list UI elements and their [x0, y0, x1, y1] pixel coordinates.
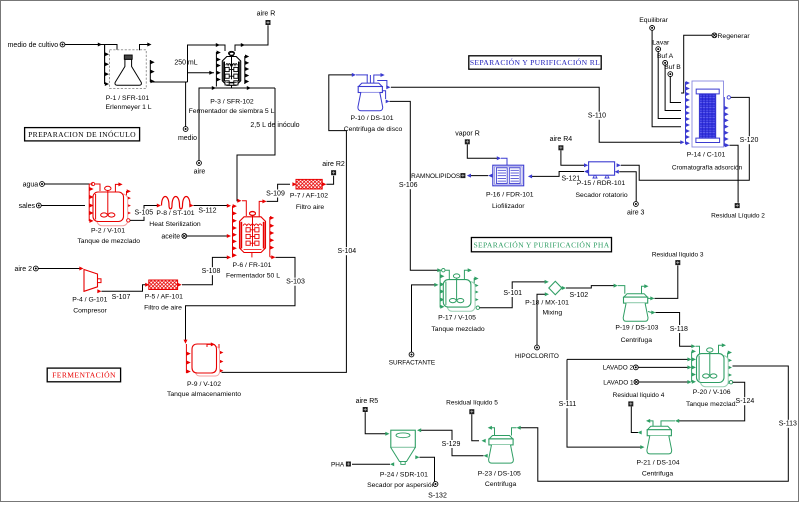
wire PHA product — [390, 462, 394, 466]
label S-124 — [736, 397, 754, 405]
label S-109 — [267, 190, 285, 198]
svg-text:P-15 / RDR-101: P-15 / RDR-101 — [577, 180, 626, 187]
svg-text:S-108: S-108 — [202, 268, 221, 275]
P-6 right bracket — [269, 217, 271, 257]
wire vapor R to P-16 — [467, 144, 497, 158]
wire P-17 vent stub — [464, 270, 468, 279]
source connector medio de cultivo — [60, 42, 65, 47]
destination connector Residual liquido 3 — [675, 260, 680, 265]
svg-text:S-118: S-118 — [670, 326, 688, 333]
destination connector Residual liquido 5 — [469, 409, 474, 414]
svg-text:S-107: S-107 — [112, 294, 131, 301]
svg-text:P-8 / ST-101: P-8 / ST-101 — [156, 210, 194, 217]
svg-text:agua: agua — [23, 182, 39, 189]
wire LAVADO 2 to P-20 — [638, 366, 688, 368]
destination connector aire R — [266, 20, 271, 25]
P-2 outlet port — [127, 219, 130, 222]
svg-text:P-21 / DS-104: P-21 / DS-104 — [636, 459, 679, 466]
svg-text:Compresor: Compresor — [73, 307, 107, 314]
label S-102 — [570, 291, 588, 299]
wire 2,5 L de inoculo to P-6 — [237, 88, 275, 201]
source connector LAVADO 1 — [634, 380, 639, 385]
label S-118 — [670, 325, 688, 333]
svg-text:S-132: S-132 — [428, 492, 447, 499]
section label SEPARACION Y PURIFICACION PHA — [471, 238, 611, 252]
disc centrifuge P-19 — [624, 294, 648, 297]
svg-text:S-110: S-110 — [588, 113, 606, 120]
rotary dryer P-15 — [589, 162, 615, 175]
wire S-108 — [182, 257, 228, 284]
source connector sales — [36, 203, 41, 208]
label S-113 — [779, 420, 797, 428]
disc centrifuge P-10 — [356, 74, 368, 76]
svg-text:S-113: S-113 — [779, 421, 797, 428]
svg-text:Tanque almacenamiento: Tanque almacenamiento — [167, 391, 241, 398]
svg-text:aceite: aceite — [161, 234, 180, 241]
compressor P-4 — [84, 270, 98, 292]
svg-text:SEPARACIÓN Y PURIFICACIÓN RL: SEPARACIÓN Y PURIFICACIÓN RL — [470, 57, 600, 67]
wire SURFACTANTE to P-17 — [412, 285, 436, 352]
destination connector Residual liquido 4 — [628, 401, 633, 406]
svg-text:S-104: S-104 — [337, 248, 356, 255]
P-9 right bracket — [218, 344, 220, 372]
svg-text:SEPARACIÓN Y PURIFICACIÓN PHA: SEPARACIÓN Y PURIFICACIÓN PHA — [473, 239, 609, 249]
wire P-15 exhaust to column — [617, 163, 621, 167]
source connector aire — [197, 161, 202, 166]
wire P-6 bottom outlet — [251, 253, 253, 258]
svg-text:Centrifuga: Centrifuga — [621, 337, 653, 344]
disc centrifuge P-21 — [648, 426, 672, 429]
section label SEPARACION Y PURIFICACION RL — [469, 56, 601, 69]
chromatography column P-14 — [692, 81, 724, 147]
source connector aceite — [182, 234, 187, 239]
svg-text:S-121: S-121 — [561, 175, 580, 182]
mixing tank P-17 — [442, 269, 445, 272]
wire aire 3 to P-15 — [615, 170, 619, 174]
wire P-7 to aire R2 — [326, 176, 333, 184]
source connector Buf B — [668, 72, 673, 77]
wire agua to P-2 — [44, 183, 91, 185]
svg-text:S-129: S-129 — [442, 441, 461, 448]
svg-text:Fermentador 50 L: Fermentador 50 L — [226, 273, 280, 280]
wire 250 mL inoculum riser — [188, 45, 226, 82]
mixer P-18 — [549, 281, 562, 294]
label S-103 — [287, 278, 305, 286]
wire P-20 vent stub — [719, 345, 723, 353]
wire S-102 — [566, 286, 614, 288]
source connector S-132 — [433, 482, 438, 487]
wire sales to P-2 — [41, 205, 85, 207]
P-20 left bracket — [691, 351, 693, 382]
wire S-106 — [390, 101, 439, 270]
wire Buf A to column — [665, 65, 681, 110]
destination connector vapor R — [465, 139, 470, 144]
svg-text:P-6 / FR-101: P-6 / FR-101 — [233, 262, 272, 269]
mixing tank P-20 — [701, 356, 729, 387]
wire Regenerar to column — [681, 35, 712, 93]
svg-text:2,5 L de inóculo: 2,5 L de inóculo — [250, 122, 299, 129]
svg-text:Tanque mezclado: Tanque mezclado — [431, 326, 484, 333]
label S-106 — [399, 181, 417, 189]
P-2 right bracket — [126, 191, 128, 221]
P-1 right outlet bracket — [149, 60, 151, 82]
wire P-9 vent stub — [207, 344, 212, 347]
svg-text:Filtro aire: Filtro aire — [296, 204, 325, 211]
wire S-109 from P-6 top — [259, 201, 263, 216]
svg-text:Erlenmeyer 1 L: Erlenmeyer 1 L — [105, 104, 151, 111]
svg-text:S-103: S-103 — [286, 279, 305, 286]
P-17 outlet port — [476, 306, 479, 309]
P-20 outlet port — [729, 381, 732, 384]
svg-text:Fermentador de siembra 5 L: Fermentador de siembra 5 L — [189, 108, 275, 115]
source connector medio — [183, 127, 188, 132]
wire aire R4 to P-15 — [561, 150, 584, 165]
svg-text:Residual líquido 4: Residual líquido 4 — [613, 392, 665, 399]
wire Residual liquido 4 from P-21 — [631, 407, 638, 433]
svg-text:P-9 / V-102: P-9 / V-102 — [187, 381, 221, 388]
svg-text:medio de cultivo: medio de cultivo — [8, 42, 59, 49]
svg-text:P-23 / DS-105: P-23 / DS-105 — [478, 471, 521, 478]
svg-text:P-3 / SFR-102: P-3 / SFR-102 — [210, 98, 254, 105]
source connector aire 2 — [33, 266, 38, 271]
source connector Buf A — [663, 61, 668, 66]
svg-text:Residual Líquido 2: Residual Líquido 2 — [711, 212, 765, 219]
svg-text:Liofilizador: Liofilizador — [492, 203, 525, 210]
destination connector RAMNOLIPIDOS — [460, 173, 465, 178]
svg-text:S-124: S-124 — [736, 398, 755, 405]
wire medio de cultivo to P-1 — [65, 45, 117, 51]
svg-text:SURFACTANTE: SURFACTANTE — [389, 359, 435, 366]
column P-14 left bracket — [685, 82, 687, 144]
P-6 left bracket — [232, 206, 234, 258]
wire P-2 vent stub — [115, 184, 119, 192]
svg-text:vapor R: vapor R — [455, 130, 480, 137]
wire Buf B to column — [670, 77, 681, 103]
svg-text:aire R2: aire R2 — [322, 161, 345, 168]
wire S-129 — [484, 454, 488, 458]
mixing tank P-2 — [97, 194, 128, 226]
P-3 left bracket — [215, 52, 217, 87]
svg-text:HIPOCLORITO: HIPOCLORITO — [515, 353, 559, 360]
svg-text:250 mL: 250 mL — [174, 60, 197, 67]
wire P-10 light phase port — [377, 81, 387, 88]
destination connector Residual liquido 2 — [735, 203, 740, 208]
wire S-118 — [648, 312, 652, 313]
storage tank P-9 — [196, 347, 220, 377]
label S-105 — [135, 209, 153, 217]
P-1 left inlet bracket — [104, 45, 106, 85]
wire S-113 — [520, 366, 788, 481]
wire LAVADO 1 to P-20 — [639, 381, 688, 383]
freeze dryer P-16 — [493, 165, 524, 186]
wire Residual liquido 3 — [648, 297, 651, 299]
label S-110 — [588, 112, 606, 120]
wire S-101 — [480, 282, 546, 308]
svg-text:P-14 / C-101: P-14 / C-101 — [687, 152, 726, 159]
label S-101 — [504, 289, 522, 297]
svg-text:P-17 / V-105: P-17 / V-105 — [438, 314, 476, 321]
svg-text:Buf A: Buf A — [657, 53, 674, 60]
destination connector aire R4 — [558, 145, 563, 150]
svg-text:aire R: aire R — [257, 11, 276, 18]
wire Residual liquido 2 — [725, 143, 729, 147]
wire medio feed — [185, 82, 187, 127]
wire S-104 — [222, 75, 353, 373]
source connector aire 3 — [634, 202, 639, 207]
wire S-112 — [194, 205, 229, 207]
fermentor P-6 — [250, 211, 256, 215]
svg-text:aire 2: aire 2 — [14, 266, 32, 273]
heat sterilizer P-8 coil — [162, 197, 191, 209]
svg-text:S-112: S-112 — [198, 207, 216, 214]
svg-text:Buf B: Buf B — [664, 64, 681, 71]
section label FERMENTACION — [47, 368, 120, 382]
wire S-111 to P-20 — [567, 358, 688, 360]
svg-text:S-105: S-105 — [134, 210, 153, 217]
wire aire R5 to P-24 — [365, 412, 386, 434]
label S-121 — [562, 175, 580, 183]
svg-text:Centrifuga de disco: Centrifuga de disco — [344, 126, 403, 133]
svg-text:S-120: S-120 — [740, 137, 759, 144]
seed fermentor P-3 — [230, 52, 234, 55]
spray dryer P-24 — [391, 430, 416, 447]
svg-text:S-102: S-102 — [569, 292, 588, 299]
svg-text:Heat Sterilization: Heat Sterilization — [149, 221, 201, 228]
svg-text:sales: sales — [19, 203, 36, 210]
svg-text:S-109: S-109 — [266, 190, 285, 197]
wire P-1 vent stub — [140, 45, 149, 51]
svg-text:Mixing: Mixing — [542, 310, 562, 317]
destination connector aire R5 — [363, 407, 368, 412]
destination connector PHA — [346, 462, 351, 467]
wire Lavar to column — [658, 52, 681, 119]
svg-text:Cromatografía adsorción: Cromatografía adsorción — [672, 165, 743, 172]
svg-text:PREPARACION DE INÓCULO: PREPARACION DE INÓCULO — [28, 129, 136, 139]
svg-text:FERMENTACIÓN: FERMENTACIÓN — [52, 370, 116, 380]
wire S-132 exhaust — [415, 455, 419, 459]
svg-text:LAVADO 2: LAVADO 2 — [603, 365, 634, 372]
wire RAMNOLIPIDOS product — [488, 174, 492, 178]
svg-text:Regenerar: Regenerar — [718, 33, 751, 40]
P-17 right bracket — [473, 278, 475, 308]
svg-text:S-106: S-106 — [399, 182, 418, 189]
svg-text:Tanque de mezclado: Tanque de mezclado — [77, 238, 140, 245]
source connector SURFACTANTE — [409, 352, 414, 357]
svg-text:aire R5: aire R5 — [356, 398, 379, 405]
svg-text:S-101: S-101 — [503, 290, 522, 297]
P-20 right bracket — [727, 353, 729, 383]
source connector HIPOCLORITO — [535, 345, 540, 350]
svg-text:Residual líquido 5: Residual líquido 5 — [446, 400, 498, 407]
svg-text:P-5 / AF-101: P-5 / AF-101 — [145, 294, 183, 301]
label S-111 — [559, 400, 577, 408]
wire P-3 bottom outlet stub — [231, 85, 233, 88]
source connector LAVADO 2 — [633, 365, 638, 370]
wire S-105 — [130, 206, 157, 221]
svg-text:PHA: PHA — [331, 462, 345, 469]
label S-104 — [338, 247, 356, 255]
svg-text:P-16 / FDR-101: P-16 / FDR-101 — [486, 192, 534, 199]
svg-text:P-1 / SFR-101: P-1 / SFR-101 — [106, 95, 150, 102]
wire P-19 vent stub — [642, 286, 645, 293]
svg-text:Filtro de aire: Filtro de aire — [144, 304, 182, 311]
svg-text:P-24 / SDR-101: P-24 / SDR-101 — [380, 472, 428, 479]
wire S-121 P-15 to P-16 — [584, 170, 588, 174]
svg-text:LAVADO 1: LAVADO 1 — [603, 380, 634, 387]
shake flask P-1 (Erlenmeyer) — [110, 50, 147, 89]
source connector Regenerar — [712, 33, 717, 38]
wire S-103 — [186, 257, 296, 341]
svg-text:S-111: S-111 — [559, 401, 577, 408]
label S-129 — [442, 440, 460, 448]
svg-text:P-20 / V-106: P-20 / V-106 — [693, 389, 731, 396]
wire S-107 — [102, 285, 147, 292]
wire S-110 — [391, 87, 681, 142]
P-3 right bracket — [244, 56, 246, 84]
svg-text:Centrifuga: Centrifuga — [485, 481, 517, 488]
wire P-3 vent to aire R — [235, 25, 268, 51]
svg-text:Lavar: Lavar — [652, 39, 670, 46]
svg-text:medio: medio — [178, 135, 197, 142]
svg-text:Tanque mezclad.: Tanque mezclad. — [686, 401, 737, 408]
P-9 left bracket — [185, 344, 187, 373]
wire S-101p flask outlet to junction — [150, 81, 187, 83]
label S-120 — [740, 136, 758, 144]
svg-text:aire: aire — [194, 169, 206, 176]
destination connector aire R2 — [331, 170, 336, 175]
svg-text:P-18 / MX-101: P-18 / MX-101 — [525, 299, 569, 306]
svg-text:Secador por aspersión: Secador por aspersión — [367, 482, 436, 489]
svg-text:aire R4: aire R4 — [550, 136, 573, 143]
svg-text:Residual líquido 3: Residual líquido 3 — [652, 252, 704, 259]
svg-text:RAMNOLIPIDOS: RAMNOLIPIDOS — [411, 173, 460, 180]
label S-108 — [202, 267, 220, 275]
source connector Lavar — [656, 47, 661, 52]
P-17 left bracket — [439, 270, 441, 307]
wire P-23 vent stub — [491, 428, 495, 436]
svg-text:P-10 / DS-101: P-10 / DS-101 — [350, 115, 393, 122]
source connector Equilibrar — [650, 26, 655, 31]
wire aire to P-3 bottom header — [199, 88, 275, 161]
source connector agua — [40, 182, 45, 187]
section label PREPARACION DE INOCULO — [25, 128, 140, 141]
svg-text:P-19 / DS-103: P-19 / DS-103 — [615, 325, 658, 332]
svg-text:Secador rotatorio: Secador rotatorio — [576, 192, 628, 199]
svg-text:Equilibrar: Equilibrar — [639, 17, 668, 24]
wire aire 2 to P-4 — [38, 268, 80, 270]
disc centrifuge P-23 — [489, 436, 513, 439]
column P-14 right bracket — [723, 97, 725, 146]
wire Equilibrar to column — [652, 30, 681, 127]
svg-text:Centrifuga: Centrifuga — [642, 471, 674, 478]
wire P-21 vent stub — [650, 421, 654, 426]
wire aceite to P-6 — [187, 235, 228, 237]
wire Residual liquido 5 from P-23 — [472, 414, 479, 441]
wire HIPOCLORITO to P-18 — [537, 294, 546, 345]
P-2 left bracket — [88, 184, 90, 221]
svg-text:P-7 / AF-102: P-7 / AF-102 — [290, 193, 328, 200]
wire P-10 heavy phase port — [383, 91, 386, 99]
air filter P-7 — [296, 179, 322, 189]
label S-112 — [199, 207, 217, 215]
air filter P-5 — [149, 280, 178, 290]
svg-text:P-2 / V-101: P-2 / V-101 — [91, 227, 125, 234]
svg-text:P-4 / G-101: P-4 / G-101 — [72, 297, 107, 304]
svg-text:aire 3: aire 3 — [627, 209, 645, 216]
wire S-124 — [679, 382, 745, 421]
